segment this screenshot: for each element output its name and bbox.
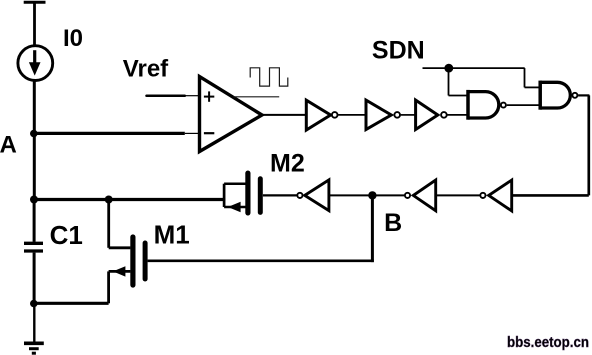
M2 source arrow (228, 202, 241, 212)
right rail down (587, 95, 590, 195)
comparator U1 (200, 77, 263, 152)
inverter U2 (306, 100, 337, 130)
M1 source lead (109, 270, 131, 273)
comparator output wire (262, 114, 306, 116)
capacitor C1 wire lower (33, 253, 36, 304)
wire node A to comparator minus input (34, 132, 185, 135)
capacitor C1 wire upper (33, 200, 36, 242)
NAND gate U6 (540, 81, 577, 110)
M1 gate bar (143, 243, 148, 279)
svg-text:C1: C1 (50, 220, 83, 250)
clock waveform symbol (250, 68, 288, 86)
bottom node junction dot (30, 300, 38, 308)
M1 drain lead (109, 246, 131, 249)
current source I0 (18, 46, 53, 81)
inverter U7 (facing left) (480, 180, 511, 211)
wire mid node to M2 source/drain tie (34, 198, 225, 201)
minus sign (204, 132, 214, 134)
transistor M2 (224, 173, 296, 213)
svg-text:M2: M2 (270, 150, 305, 178)
wire bottom node to ground (33, 303, 35, 342)
wire U8 to node B to U9 (329, 194, 405, 196)
capacitor C1 (24, 243, 43, 251)
node B junction dot (368, 191, 376, 199)
M2 drain lead (224, 182, 246, 185)
svg-text:I0: I0 (63, 25, 83, 52)
M1 source wire down (107, 271, 110, 303)
svg-text:bbs.eetop.cn: bbs.eetop.cn (507, 335, 589, 351)
wire node A down to mid node (33, 134, 36, 200)
wire U4 to NAND1 (447, 114, 468, 116)
wire current source to node A (33, 80, 36, 134)
wire bottom node to M1 source (34, 302, 109, 305)
M1 channel bar (130, 237, 135, 285)
inverter U8 (facing left) (405, 180, 436, 211)
wire U3 to U4 (401, 114, 416, 116)
SDN junction dot (444, 64, 453, 73)
inverter U3 (366, 100, 400, 129)
inverter U9 (facing left) (297, 180, 329, 211)
mid node junction dot (30, 196, 38, 204)
wire U7 to U8 (436, 194, 480, 196)
M2 gate lead (263, 194, 297, 196)
M2 channel bar (245, 173, 250, 213)
feedback wire rail to inverter U7 (512, 194, 589, 197)
svg-text:A: A (0, 131, 17, 158)
ground (24, 343, 44, 353)
transistor M1 (109, 200, 146, 304)
svg-text:SDN: SDN (372, 37, 425, 65)
SDN wire horizontal (423, 67, 525, 69)
svg-text:Vref: Vref (123, 56, 169, 83)
M1 gate wire to node B (148, 259, 374, 262)
wire NAND2 out to right rail (578, 94, 589, 96)
wire into NAND1 top input (449, 95, 469, 97)
wire into NAND2 top input (525, 86, 541, 88)
SDN branch down to NAND2 (524, 68, 526, 87)
supply rail top bar (24, 1, 46, 4)
M2 gate bar (258, 179, 263, 213)
node B wire down to M1 gate (371, 195, 374, 262)
NAND gate U5 (468, 90, 506, 120)
svg-text:M1: M1 (154, 219, 190, 249)
plus sign (204, 96, 214, 98)
M1 source arrow (113, 266, 126, 276)
wire Vref to plus input (147, 94, 185, 97)
wire supply to current source (33, 2, 36, 46)
wire NAND1 out to NAND2 (507, 104, 541, 106)
M2 source lead (224, 206, 246, 209)
node A junction dot (30, 130, 38, 138)
M2 tie bar vertical (223, 184, 226, 207)
SDN branch down to NAND1 (448, 68, 450, 95)
junction dot M1 drain tap (105, 196, 113, 204)
M1 drain wire down from tap (107, 200, 110, 248)
svg-text:B: B (384, 209, 402, 237)
clock waveform axis (234, 96, 280, 98)
inverter U4 (416, 100, 447, 129)
wire U2 to U3 (338, 114, 366, 116)
